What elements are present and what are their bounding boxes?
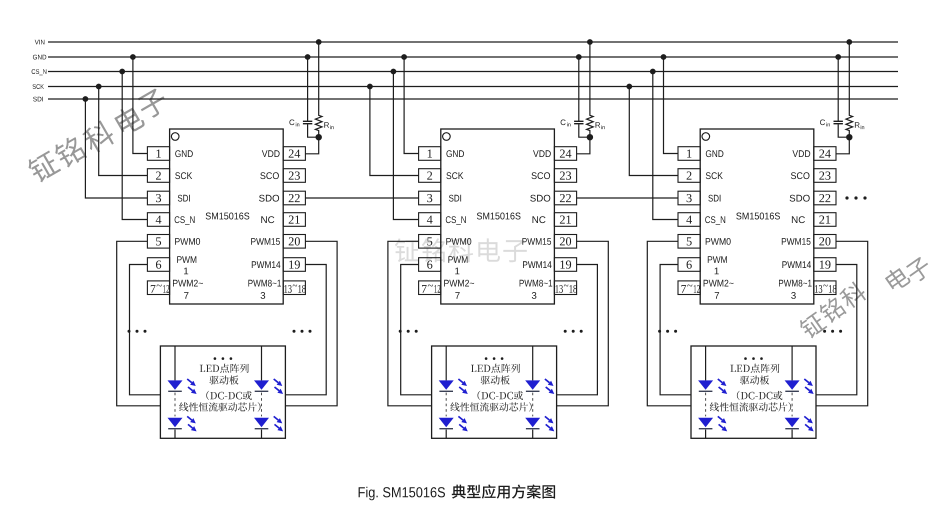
pin label SCK U2 bbox=[446, 172, 463, 179]
pin 19 U1 bbox=[283, 258, 305, 272]
pin label PWM8~13 U3 bbox=[779, 280, 812, 299]
wire CS_N bus bbox=[48, 71, 898, 73]
pin label PWM15 U3 bbox=[782, 238, 811, 245]
pin 5 U2 bbox=[419, 235, 441, 249]
wire U3 pin6 to LED board bbox=[660, 265, 691, 395]
wire SDI bus to U1 pin3 bbox=[85, 99, 147, 198]
pin label SCO U3 bbox=[791, 172, 810, 179]
ellipsis inside board 3 bbox=[744, 357, 763, 360]
pin 3 U2 bbox=[419, 191, 441, 205]
junction GND bus Cin 1 bbox=[305, 54, 311, 60]
pin 23 U2 bbox=[554, 169, 576, 183]
wire U1 pin19 to LED board bbox=[285, 265, 326, 395]
pin label PWM14 U3 bbox=[782, 261, 811, 268]
wire SCK bus to U2 pin2 bbox=[370, 87, 419, 176]
pin label PWM15 U1 bbox=[251, 238, 280, 245]
board 2 label text bbox=[450, 364, 531, 412]
pin label VDD U1 bbox=[262, 150, 280, 157]
ellipsis left of board 2 bbox=[399, 330, 418, 333]
junction VIN bus Rin 3 bbox=[846, 39, 852, 45]
wire U2 pin19 to LED board bbox=[557, 265, 598, 395]
pin label PWM2~7 U3 bbox=[704, 280, 734, 299]
pin 1 U2 bbox=[419, 147, 441, 161]
ellipsis right of board 2 bbox=[564, 330, 583, 333]
pin label SDI U3 bbox=[708, 195, 720, 202]
pin label NC U1 bbox=[261, 216, 274, 223]
net label GND bbox=[33, 55, 46, 60]
pin 6 U2 bbox=[419, 258, 441, 272]
LED board2 col1 d1 bbox=[439, 379, 468, 394]
wire GND bus to U2 pin1 bbox=[404, 57, 419, 154]
LED board3 col1 d1 bbox=[698, 379, 727, 394]
pin 23 U3 bbox=[814, 169, 836, 183]
junction SCK bus U1 bbox=[96, 84, 102, 90]
pin 2 U3 bbox=[678, 169, 700, 183]
wire SCK bus to U3 pin2 bbox=[629, 87, 678, 176]
pin 21 U2 bbox=[554, 213, 576, 227]
LED board3 col2 d2 bbox=[785, 416, 814, 431]
watermark 2 bbox=[395, 238, 527, 262]
watermark 1 bbox=[25, 87, 170, 185]
IC U2 SM15016S bbox=[441, 129, 555, 304]
net label SCK bbox=[33, 84, 44, 89]
resistor Rin section 3 bbox=[836, 42, 853, 154]
ellipsis right of board 1 bbox=[293, 330, 312, 333]
junction SCK bus U3 bbox=[626, 84, 632, 90]
junction VIN bus Rin 2 bbox=[587, 39, 593, 45]
ellipsis inside board 1 bbox=[214, 357, 233, 360]
pin 13~18 U3 bbox=[814, 281, 837, 295]
LED board1 col2 d1 bbox=[254, 379, 283, 394]
pin label PWM0 U3 bbox=[706, 238, 731, 245]
net label CS_N bbox=[32, 69, 47, 75]
pin 20 U3 bbox=[814, 235, 836, 249]
junction SDI bus U1 bbox=[83, 96, 89, 102]
pin label SDI U1 bbox=[178, 195, 190, 202]
wire LED string 1 board 1 bbox=[174, 346, 176, 438]
pin label SDO U2 bbox=[530, 195, 550, 202]
pin 4 U1 bbox=[147, 213, 169, 227]
resistor Rin section 2 bbox=[577, 42, 594, 154]
junction CS_N bus U3 bbox=[650, 69, 656, 75]
ellipsis left of board 3 bbox=[658, 330, 677, 333]
junction GND bus Cin 2 bbox=[576, 54, 582, 60]
pin label NC U3 bbox=[792, 216, 805, 223]
wire U2 pin6 to LED board bbox=[401, 265, 432, 395]
wire U1 pin5 to LED board bbox=[117, 241, 161, 405]
pin 13~18 U1 bbox=[283, 281, 306, 295]
ellipsis left of board 1 bbox=[128, 330, 147, 333]
node Rin/Cin/VDD 2 bbox=[587, 134, 593, 140]
wire GND bus bbox=[48, 56, 898, 58]
junction CS_N bus U1 bbox=[119, 69, 125, 75]
LED matrix board 1 bbox=[160, 346, 285, 438]
wire U2 pin20 to LED board bbox=[557, 241, 609, 405]
pin 6 U3 bbox=[678, 258, 700, 272]
watermark 3 bbox=[797, 255, 930, 340]
junction GND bus U1 bbox=[130, 54, 136, 60]
node Rin/Cin/VDD 3 bbox=[846, 134, 852, 140]
net label VIN bbox=[35, 40, 45, 45]
pin label SCK U1 bbox=[175, 172, 192, 179]
wire VIN bus bbox=[48, 41, 898, 43]
junction SCK bus U2 bbox=[367, 84, 373, 90]
value label Cin 1 bbox=[289, 120, 299, 127]
ellipsis after U3 SDO bbox=[845, 196, 866, 199]
wire SCK bus to U1 pin2 bbox=[99, 87, 148, 176]
pin 2 U1 bbox=[147, 169, 169, 183]
pin 23 U1 bbox=[283, 169, 305, 183]
pin 19 U3 bbox=[814, 258, 836, 272]
junction CS_N bus U2 bbox=[391, 69, 397, 75]
pin label PWM14 U2 bbox=[523, 261, 552, 268]
pin 22 U1 bbox=[283, 191, 305, 205]
LED board1 col2 d2 bbox=[254, 416, 283, 431]
wire CS_N bus to U3 pin4 bbox=[653, 72, 678, 220]
ellipsis right of board 3 bbox=[823, 330, 842, 333]
pin 4 U3 bbox=[678, 213, 700, 227]
caption bbox=[359, 485, 555, 501]
net label SDI bbox=[33, 97, 43, 102]
wire LED string 2 board 1 bbox=[261, 346, 263, 438]
LED board1 col1 d1 bbox=[168, 379, 197, 394]
pin 21 U3 bbox=[814, 213, 836, 227]
pin label VDD U2 bbox=[533, 150, 551, 157]
pin 24 U3 bbox=[814, 147, 836, 161]
pin label GND U3 bbox=[706, 150, 724, 157]
pin 24 U1 bbox=[283, 147, 305, 161]
pin label SCO U2 bbox=[532, 172, 551, 179]
pin label PWM0 U1 bbox=[175, 238, 200, 245]
LED board3 col2 d1 bbox=[785, 379, 814, 394]
pin label SDI U2 bbox=[449, 195, 461, 202]
wire U1 pin20 to LED board bbox=[285, 241, 337, 405]
pin 7~12 U2 bbox=[419, 281, 441, 295]
pin label SCO U1 bbox=[260, 172, 279, 179]
pin label PWM1 U1 bbox=[177, 256, 196, 274]
wire U3 pin5 to LED board bbox=[647, 241, 691, 405]
LED board1 col1 d2 bbox=[168, 416, 197, 431]
capacitor Cin section 3 bbox=[834, 57, 850, 137]
wire CS_N bus to U1 pin4 bbox=[122, 72, 147, 220]
pin label PWM2~7 U2 bbox=[444, 280, 474, 299]
pin label PWM15 U2 bbox=[522, 238, 551, 245]
pin label NC U2 bbox=[533, 216, 546, 223]
LED matrix board 3 bbox=[691, 346, 816, 438]
pin 19 U2 bbox=[554, 258, 576, 272]
wire LED string 1 board 3 bbox=[705, 346, 707, 438]
pin 24 U2 bbox=[554, 147, 576, 161]
pin 6 U1 bbox=[147, 258, 169, 272]
pin label CS_N U1 bbox=[175, 216, 195, 225]
wire SCK bus bbox=[48, 86, 898, 88]
value label Cin 3 bbox=[820, 120, 830, 127]
wire SDO U1 to SDI U2 bbox=[305, 197, 418, 199]
pin label SDO U3 bbox=[790, 195, 810, 202]
wire U1 pin6 to LED board bbox=[130, 265, 161, 395]
LED board2 col1 d2 bbox=[439, 416, 468, 431]
capacitor Cin section 2 bbox=[574, 57, 590, 137]
junction VIN bus Rin 1 bbox=[316, 39, 322, 45]
wire LED string 2 board 2 bbox=[532, 346, 534, 438]
IC U3 SM15016S bbox=[700, 129, 814, 304]
pin 3 U3 bbox=[678, 191, 700, 205]
pin label CS_N U2 bbox=[446, 216, 466, 225]
pin 3 U1 bbox=[147, 191, 169, 205]
pin 20 U1 bbox=[283, 235, 305, 249]
node Rin/Cin/VDD 1 bbox=[316, 134, 322, 140]
wire U2 pin5 to LED board bbox=[388, 241, 432, 405]
pin 5 U3 bbox=[678, 235, 700, 249]
wire GND bus to U3 pin1 bbox=[664, 57, 679, 154]
pin label PWM14 U1 bbox=[252, 261, 281, 268]
pin label PWM1 U2 bbox=[448, 256, 467, 274]
wire U3 pin19 to LED board bbox=[816, 265, 857, 395]
wire SDI bus bbox=[48, 98, 898, 100]
pin 2 U2 bbox=[419, 169, 441, 183]
pin 21 U1 bbox=[283, 213, 305, 227]
pin 1 U3 bbox=[678, 147, 700, 161]
value label Cin 2 bbox=[561, 120, 571, 127]
board 1 label text bbox=[179, 364, 260, 412]
wire GND bus to U1 pin1 bbox=[133, 57, 148, 154]
board 3 label text bbox=[710, 364, 791, 412]
junction GND bus U3 bbox=[661, 54, 667, 60]
pin label PWM1 U3 bbox=[708, 256, 727, 274]
pin 22 U2 bbox=[554, 191, 576, 205]
pin label SDO U1 bbox=[259, 195, 279, 202]
pin label CS_N U3 bbox=[705, 216, 725, 225]
capacitor Cin section 1 bbox=[303, 57, 319, 137]
wire LED string 2 board 3 bbox=[791, 346, 793, 438]
ellipsis inside board 2 bbox=[485, 357, 504, 360]
pin 5 U1 bbox=[147, 235, 169, 249]
junction GND bus Cin 3 bbox=[835, 54, 841, 60]
value label Rin 1 bbox=[324, 122, 333, 129]
value label Rin 3 bbox=[855, 122, 864, 129]
pin label PWM8~13 U2 bbox=[520, 280, 553, 299]
pin 7~12 U3 bbox=[678, 281, 700, 295]
junction GND bus U2 bbox=[401, 54, 407, 60]
LED board3 col1 d2 bbox=[698, 416, 727, 431]
pin 20 U2 bbox=[554, 235, 576, 249]
pin label GND U2 bbox=[446, 150, 464, 157]
LED board2 col2 d2 bbox=[525, 416, 554, 431]
pin 1 U1 bbox=[147, 147, 169, 161]
wire CS_N bus to U2 pin4 bbox=[393, 72, 418, 220]
LED board2 col2 d1 bbox=[525, 379, 554, 394]
pin label PWM0 U2 bbox=[446, 238, 471, 245]
pin label GND U1 bbox=[175, 150, 193, 157]
LED matrix board 2 bbox=[432, 346, 557, 438]
wire U3 pin20 to LED board bbox=[816, 241, 868, 405]
pin 22 U3 bbox=[814, 191, 836, 205]
pin 7~12 U1 bbox=[147, 281, 169, 295]
pin label SCK U3 bbox=[706, 172, 723, 179]
pin 4 U2 bbox=[419, 213, 441, 227]
wire LED string 1 board 2 bbox=[445, 346, 447, 438]
pin 13~18 U2 bbox=[554, 281, 577, 295]
IC U1 SM15016S bbox=[170, 129, 284, 304]
value label Rin 2 bbox=[596, 122, 605, 129]
pin label VDD U3 bbox=[792, 150, 810, 157]
resistor Rin section 1 bbox=[305, 42, 322, 154]
pin label PWM2~7 U1 bbox=[173, 280, 203, 299]
wire SDO U2 to SDI U3 bbox=[577, 197, 678, 199]
pin label PWM8~13 U1 bbox=[248, 280, 281, 299]
